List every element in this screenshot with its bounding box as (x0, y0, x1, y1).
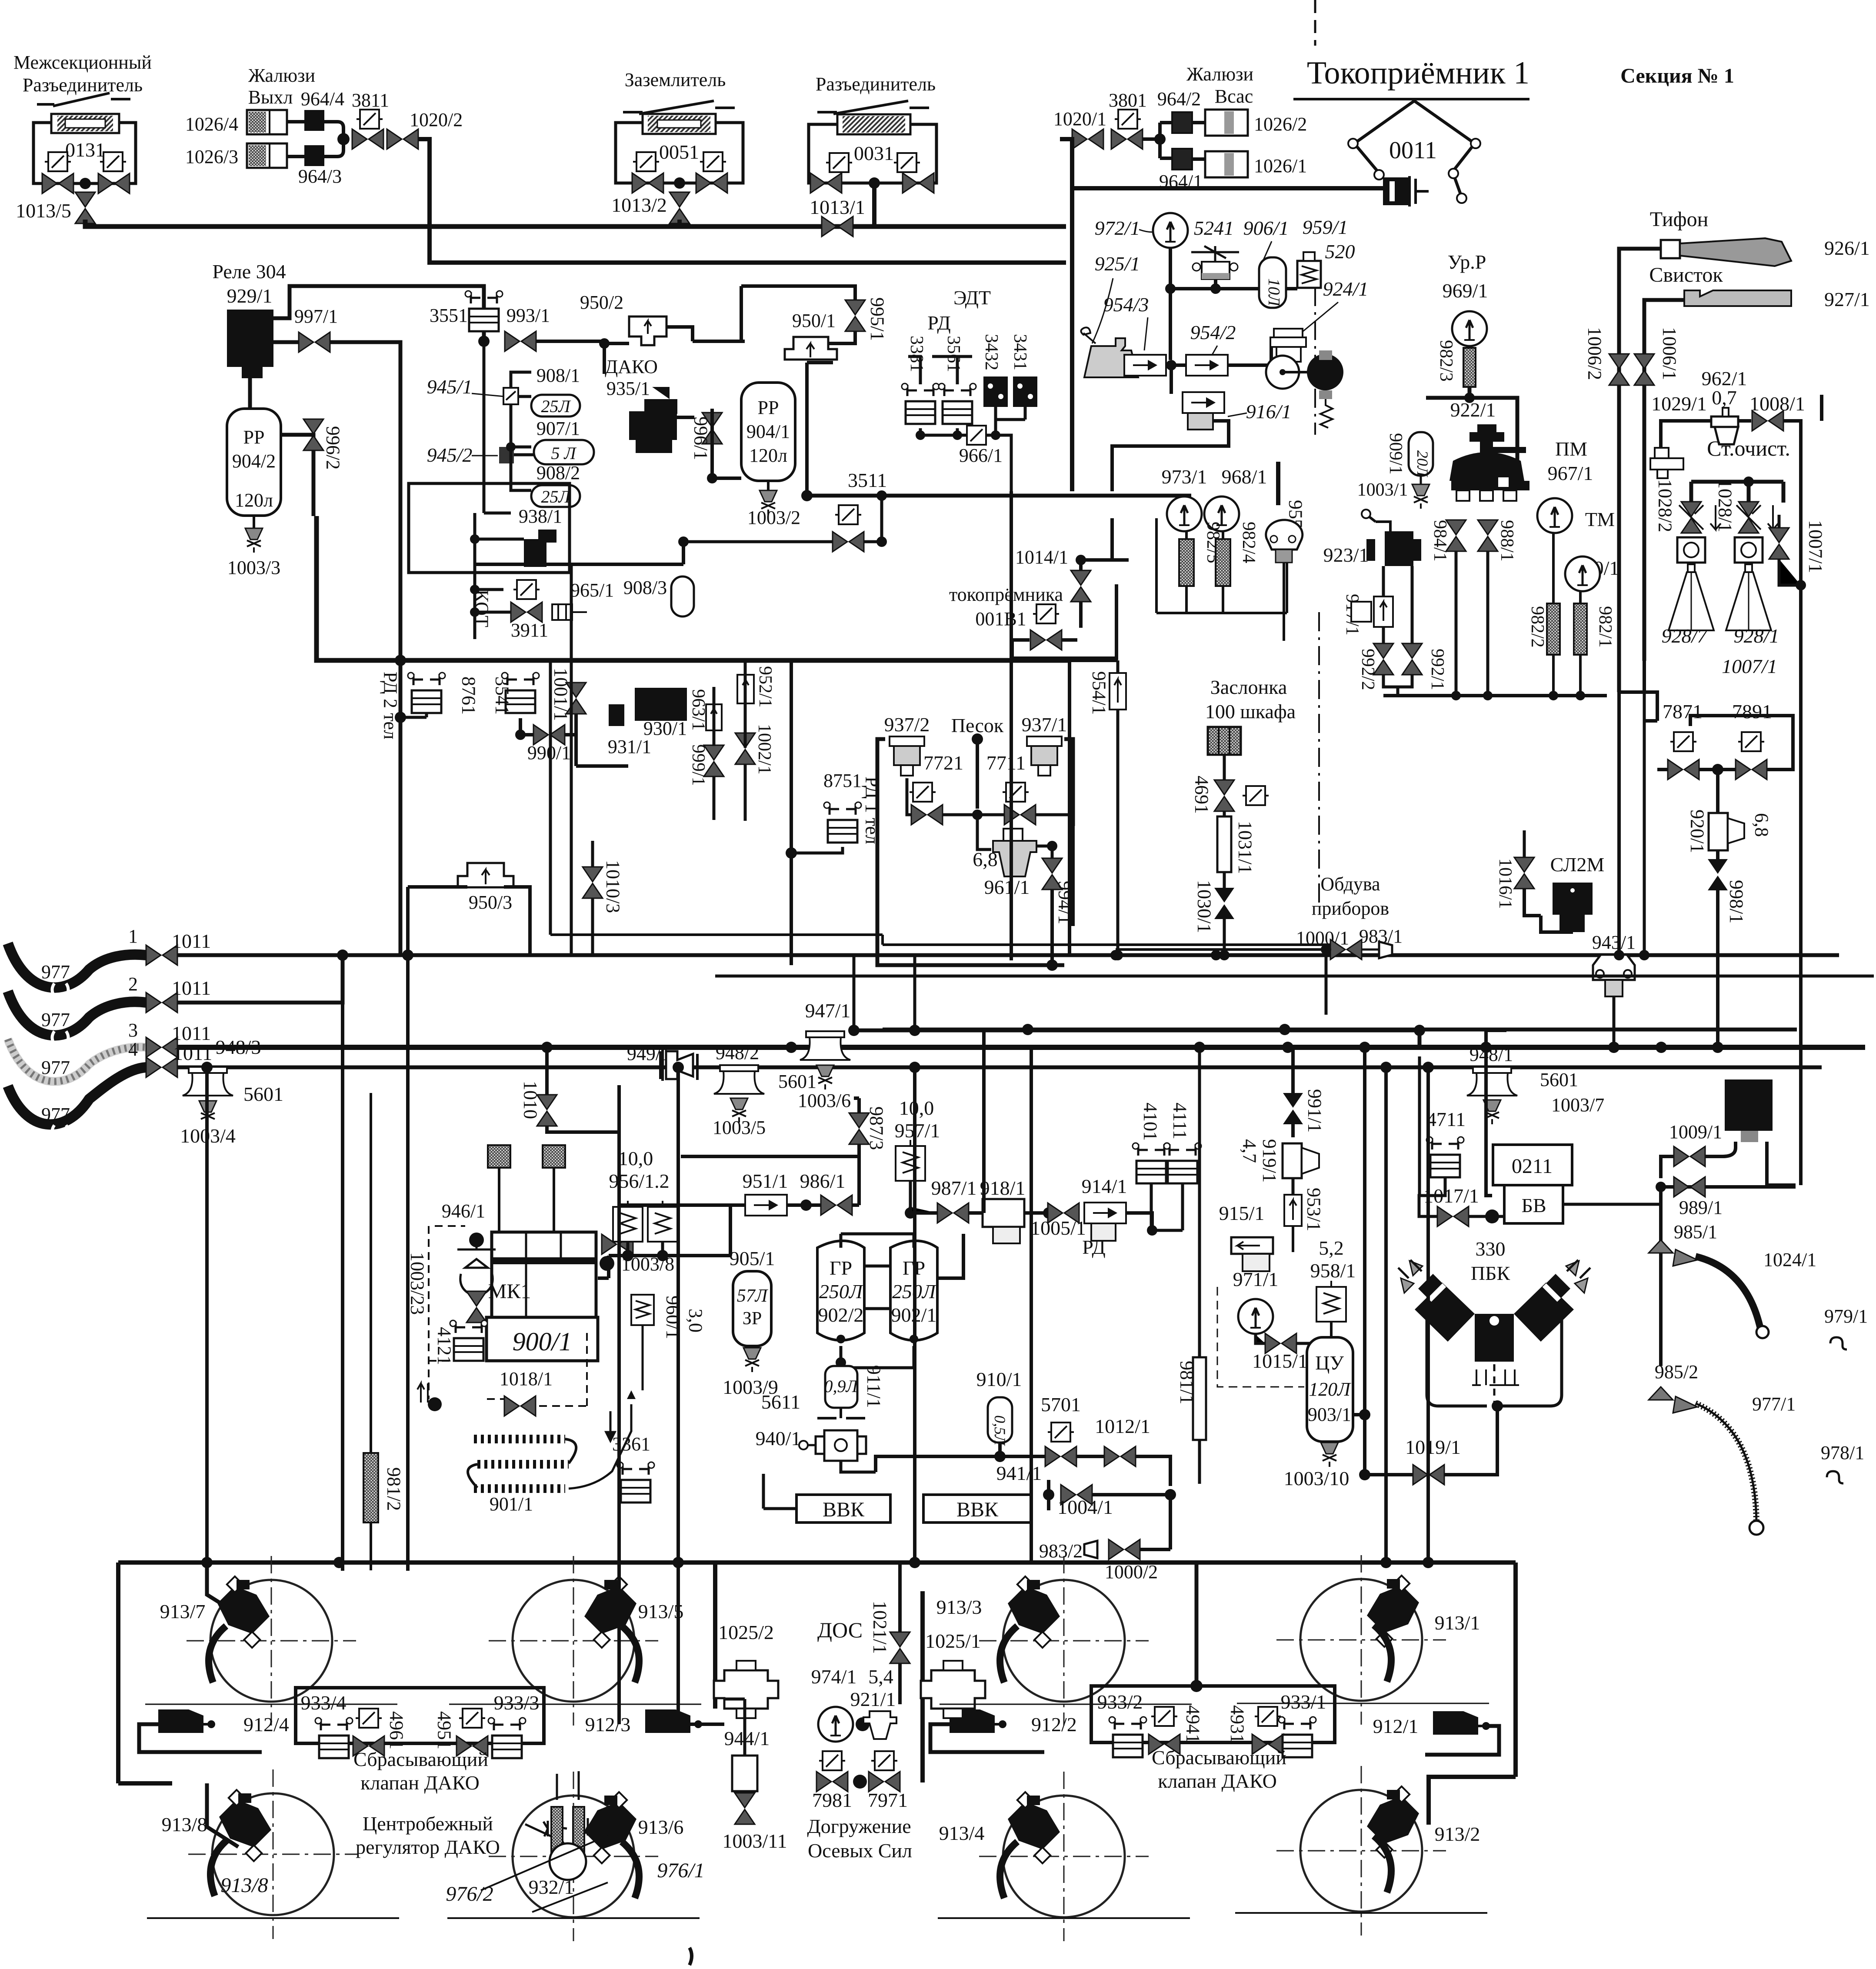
wire V down to H2 and pantograph feed (1060, 139, 1072, 263)
svg-text:7971: 7971 (868, 1789, 908, 1811)
svg-text:1003/11: 1003/11 (722, 1830, 787, 1852)
valve 1009/1 (1674, 1146, 1705, 1166)
svg-text:Сбрасывающий: Сбрасывающий (353, 1748, 488, 1770)
wheel 913/4 (979, 1772, 1149, 1941)
svg-text:1011: 1011 (172, 977, 211, 999)
svg-text:981/1: 981/1 (1176, 1361, 1198, 1404)
nozzle base left (1677, 537, 1705, 563)
wire BV to right main (1563, 1203, 1661, 1206)
svg-text:Секция № 1: Секция № 1 (1620, 64, 1734, 87)
svg-text:923/1: 923/1 (1323, 544, 1369, 566)
valve 964/3 (304, 145, 324, 166)
svg-text:941/1: 941/1 (996, 1462, 1042, 1484)
end valve line4 (146, 1057, 177, 1077)
svg-text:РР: РР (243, 426, 265, 448)
cylinder 1026/3 (247, 143, 287, 168)
bogie 2 frame (118, 1563, 1516, 1825)
wire left risers to bogie2 (207, 1561, 339, 1564)
svg-text:Жалюзи: Жалюзи (248, 65, 315, 86)
svg-text:РД: РД (927, 312, 951, 334)
svg-text:976/2: 976/2 (446, 1882, 493, 1906)
svg-text:998/1: 998/1 (1726, 880, 1747, 923)
box BV (1504, 1185, 1563, 1223)
svg-text:945/1: 945/1 (427, 376, 473, 398)
svg-text:Центробежный: Центробежный (363, 1812, 493, 1835)
svg-text:913/6: 913/6 (638, 1816, 684, 1838)
svg-text:Токоприёмник 1: Токоприёмник 1 (1307, 55, 1529, 91)
svg-text:1020/2: 1020/2 (410, 109, 463, 130)
svg-text:932/1: 932/1 (529, 1876, 574, 1898)
svg-text:1004/1: 1004/1 (1057, 1496, 1113, 1518)
svg-text:924/1: 924/1 (1323, 278, 1369, 300)
svg-text:1009/1: 1009/1 (1669, 1121, 1722, 1143)
hose 977 line2 (8, 991, 146, 1036)
svg-text:989/1: 989/1 (1679, 1197, 1723, 1218)
svg-text:1020/1: 1020/1 (1053, 108, 1106, 130)
PBK center block (1475, 1314, 1514, 1362)
svg-text:Заслонка: Заслонка (1210, 676, 1287, 698)
wires (714, 661, 745, 821)
line 1 (177, 953, 1839, 957)
svg-text:5241: 5241 (1194, 217, 1234, 239)
box loop (877, 739, 1073, 965)
box 0131 (33, 123, 136, 183)
bus feed MR (883, 1028, 1797, 1032)
PBK box outline (1427, 1309, 1562, 1406)
wire 951/1 left to trunk (619, 1132, 681, 1205)
valve 993/1 (505, 331, 536, 351)
gauge 972/1 (1153, 213, 1188, 248)
svg-text:4: 4 (128, 1039, 138, 1060)
wire main H1 (85, 220, 1066, 227)
svg-text:965/1: 965/1 (570, 580, 614, 601)
svg-text:20Л: 20Л (1414, 450, 1431, 478)
throttle beside 3911 (552, 604, 572, 620)
wheel 913/8 (188, 1769, 358, 1939)
svg-text:948/3: 948/3 (216, 1036, 261, 1058)
svg-text:ТМ: ТМ (1585, 508, 1615, 530)
forward sander 961/1 (993, 841, 1036, 876)
svg-text:приборов: приборов (1312, 898, 1389, 919)
svg-text:985/2: 985/2 (1655, 1361, 1698, 1383)
svg-text:940/1: 940/1 (756, 1427, 801, 1449)
svg-text:982/4: 982/4 (1239, 522, 1259, 563)
wheel 913/1 (1276, 1555, 1446, 1725)
relay 950/2 (629, 317, 666, 345)
svg-text:8751: 8751 (823, 770, 862, 791)
rail lines under wheels (147, 1913, 1487, 1918)
valve 1015/1 (1265, 1333, 1296, 1353)
muffler 5601 at line1 (800, 1031, 850, 1060)
sand valve 937/2 (890, 736, 924, 776)
svg-text:987/3: 987/3 (866, 1106, 887, 1150)
svg-text:3381: 3381 (906, 336, 926, 372)
svg-text:982/1: 982/1 (1595, 606, 1615, 648)
valve 996/1 (702, 413, 722, 444)
tank 10Л 906/1 (1259, 257, 1286, 308)
wires around DAKO (536, 327, 745, 374)
end valve line1 (146, 945, 177, 965)
svg-text:908/3: 908/3 (623, 577, 667, 598)
svg-text:4961: 4961 (386, 1711, 407, 1749)
svg-text:928/1: 928/1 (1734, 625, 1779, 647)
svg-text:937/2: 937/2 (884, 713, 930, 736)
svg-text:3811: 3811 (352, 90, 389, 111)
svg-text:1006/1: 1006/1 (1659, 327, 1680, 380)
svg-text:120л: 120л (749, 445, 787, 466)
svg-text:1011: 1011 (173, 1042, 212, 1064)
svg-text:1003/10: 1003/10 (1284, 1467, 1350, 1489)
svg-text:964/3: 964/3 (298, 166, 342, 187)
spring valve 957/1 (896, 1140, 925, 1181)
drain funnel 1003/3 (253, 516, 255, 528)
valve 1000/1 (1330, 940, 1362, 960)
svg-text:25Л: 25Л (541, 487, 571, 506)
svg-text:912/2: 912/2 (1031, 1713, 1077, 1736)
valve 1013/2 (670, 192, 690, 223)
pantograph frame 0011 (1354, 101, 1475, 195)
small tank 0,9л 911/1 (825, 1366, 857, 1408)
svg-text:915/1: 915/1 (1219, 1202, 1265, 1224)
valve 964/4 (304, 110, 324, 131)
svg-text:987/1: 987/1 (931, 1177, 977, 1199)
valve 995/1 (845, 300, 865, 331)
svg-text:1013/1: 1013/1 (810, 196, 865, 218)
svg-text:7891: 7891 (1732, 700, 1772, 723)
cylinder 1026/4 (247, 110, 287, 134)
svg-text:981/2: 981/2 (383, 1467, 405, 1511)
svg-text:922/1: 922/1 (1450, 399, 1496, 421)
wire line4 hub to PBK down (1386, 1067, 1428, 1563)
svg-text:912/4: 912/4 (243, 1713, 289, 1736)
svg-text:988/1: 988/1 (1497, 520, 1517, 562)
wires near 948/1 (854, 1030, 1419, 1047)
valve 1028/1 (1739, 502, 1759, 533)
svg-text:959/1: 959/1 (1303, 216, 1348, 238)
fuse cylinder (643, 114, 716, 134)
svg-text:57Л: 57Л (737, 1286, 769, 1306)
svg-text:1026/1: 1026/1 (1254, 155, 1307, 177)
svg-text:1010/3: 1010/3 (603, 860, 624, 913)
end valve line2 (146, 993, 177, 1013)
svg-text:4,7: 4,7 (1239, 1139, 1260, 1163)
svg-text:МК1: МК1 (488, 1280, 531, 1303)
svg-text:950/1: 950/1 (792, 310, 836, 331)
svg-text:963/1: 963/1 (688, 689, 708, 731)
regulator 916/1 (1183, 392, 1224, 413)
svg-text:913/8: 913/8 (162, 1813, 207, 1836)
svg-text:913/1: 913/1 (1435, 1612, 1480, 1634)
driver brake valve 922/1 (big black) (1477, 424, 1496, 432)
svg-text:0211: 0211 (1512, 1155, 1553, 1178)
svg-text:6,8: 6,8 (973, 848, 998, 870)
cylinder 1026/1 (1205, 151, 1248, 177)
bowtie left (42, 173, 73, 193)
svg-text:ЦУ: ЦУ (1315, 1352, 1344, 1374)
svg-text:977/1: 977/1 (1752, 1393, 1796, 1415)
svg-text:918/1: 918/1 (980, 1177, 1026, 1199)
pipes to horns (1619, 249, 1684, 692)
wire to 3511 (880, 496, 883, 542)
svg-text:25Л: 25Л (541, 396, 571, 416)
wire GR output riser (937, 1029, 984, 1278)
compressor body (492, 1232, 596, 1317)
valve 1007/1 top right (1769, 528, 1789, 559)
main reservoir GR 902/1 (890, 1241, 937, 1340)
svg-text:995/1: 995/1 (867, 297, 888, 341)
wires heater (475, 513, 524, 639)
svg-text:913/3: 913/3 (936, 1596, 982, 1618)
svg-text:952/1: 952/1 (755, 666, 775, 708)
svg-text:Жалюзи: Жалюзи (1186, 63, 1253, 85)
svg-text:СЛ2М: СЛ2М (1550, 853, 1605, 876)
throttle 954/3 (1124, 355, 1166, 376)
final feed lines to bogies (619, 1132, 724, 1724)
svg-text:906/1: 906/1 (1243, 217, 1289, 239)
valve 991/1 (1283, 1093, 1303, 1124)
svg-text:0031: 0031 (854, 142, 894, 164)
svg-text:1003/2: 1003/2 (747, 507, 800, 528)
cooling coil 901/1 (474, 1439, 569, 1489)
svg-text:Осевых Сил: Осевых Сил (808, 1839, 912, 1862)
svg-text:Разъединитель: Разъединитель (816, 73, 936, 95)
svg-text:979/1: 979/1 (1824, 1306, 1868, 1327)
svg-text:ПМ: ПМ (1555, 438, 1587, 460)
arrow down near coil (606, 1411, 615, 1441)
valve for pantograph (1030, 630, 1062, 650)
svg-text:клапан ДАКО: клапан ДАКО (360, 1772, 480, 1794)
svg-text:1025/1: 1025/1 (925, 1630, 981, 1652)
PBK side couplers (1401, 1261, 1423, 1293)
wire trunk from EDT down (1011, 491, 1031, 1563)
svg-text:4111: 4111 (1170, 1103, 1191, 1139)
svg-text:971/1: 971/1 (1233, 1268, 1279, 1290)
coupling 985/1 arrows (1649, 1240, 1697, 1266)
svg-text:1003/23: 1003/23 (407, 1252, 428, 1315)
wire dako-tank (677, 409, 741, 478)
frame around gauges (1156, 518, 1287, 613)
svg-text:954/1: 954/1 (1089, 671, 1110, 715)
svg-text:РД 2 тел: РД 2 тел (380, 672, 401, 740)
svg-text:120л: 120л (235, 490, 273, 511)
svg-text:992/2: 992/2 (1358, 649, 1378, 690)
muffler 948/3 (183, 1067, 233, 1096)
svg-text:931/1: 931/1 (608, 736, 651, 757)
svg-text:954/3: 954/3 (1103, 293, 1149, 316)
column 981/2 (363, 1453, 378, 1523)
svg-text:919/1: 919/1 (1259, 1139, 1280, 1183)
svg-text:0011: 0011 (1389, 137, 1437, 164)
svg-text:ДАКО: ДАКО (605, 356, 658, 377)
svg-text:978/1: 978/1 (1821, 1442, 1864, 1463)
svg-text:914/1: 914/1 (1082, 1175, 1127, 1197)
throttle 945/1 (503, 388, 518, 404)
wire pantograph valve loop (939, 659, 1118, 662)
svg-text:1003/1: 1003/1 (1357, 480, 1408, 500)
main line from tank to right at y1519 (317, 516, 1070, 660)
svg-text:ВВК: ВВК (956, 1498, 999, 1521)
svg-text:3432: 3432 (981, 334, 1001, 370)
svg-text:5 Л: 5 Л (551, 443, 576, 463)
throttle 952/1 (737, 675, 754, 703)
drain 1003/2 (767, 481, 770, 491)
svg-text:901/1: 901/1 (490, 1493, 533, 1515)
svg-text:958/1: 958/1 (1310, 1259, 1356, 1282)
svg-text:8761: 8761 (458, 676, 480, 715)
svg-text:5,2: 5,2 (1319, 1237, 1344, 1259)
valve 1013/1 (822, 217, 853, 237)
svg-text:974/1: 974/1 (811, 1666, 857, 1688)
main reservoir GR 902/2 (817, 1241, 864, 1340)
wire relay to top bus (273, 286, 484, 341)
valve 3641 cluster near RR904/1 (835, 505, 861, 524)
svg-text:950/2: 950/2 (580, 292, 623, 313)
valve 3911 (511, 602, 542, 622)
governor РД 914/1 (1084, 1203, 1126, 1223)
svg-text:регулятор ДАКО: регулятор ДАКО (356, 1836, 500, 1858)
svg-text:1025/2: 1025/2 (718, 1621, 774, 1643)
svg-text:1026/4: 1026/4 (185, 113, 238, 135)
svg-text:943/1: 943/1 (1592, 932, 1636, 953)
svg-text:3911: 3911 (511, 620, 548, 641)
PBK Y black arms (1415, 1283, 1475, 1342)
valve 1030/1 (1214, 888, 1234, 919)
line 3 (177, 1045, 1865, 1050)
svg-text:966/1: 966/1 (959, 445, 1003, 466)
svg-text:Свисток: Свисток (1649, 263, 1723, 287)
svg-text:985/1: 985/1 (1674, 1221, 1717, 1243)
svg-text:РД: РД (1082, 1236, 1106, 1258)
svg-text:976/1: 976/1 (657, 1859, 704, 1882)
valve 924/1 body (1274, 329, 1303, 337)
nozzle base right (1735, 537, 1763, 563)
wires to junction (287, 122, 343, 157)
wire x1964 from line1 down (854, 955, 915, 1030)
valve 1004/1 (1061, 1485, 1092, 1505)
svg-text:933/2: 933/2 (1097, 1691, 1143, 1713)
svg-text:4101: 4101 (1140, 1103, 1161, 1141)
svg-text:ВВК: ВВК (823, 1498, 865, 1521)
washer manifold (1691, 482, 1783, 503)
valve 999/1 (704, 745, 724, 776)
svg-text:992/1: 992/1 (1427, 649, 1447, 690)
valve 1008/1 (1752, 411, 1783, 431)
valve box right (100, 152, 126, 171)
valve 1010/3 (583, 867, 603, 898)
svg-text:920/1: 920/1 (1687, 810, 1708, 853)
valve on drain bus (833, 532, 864, 552)
tank РР 904/2 (227, 409, 281, 516)
motor 912/2 (950, 1709, 1006, 1733)
svg-text:2: 2 (128, 973, 138, 995)
wire washer feed from 920 region down (1619, 661, 1718, 1047)
svg-text:999/1: 999/1 (688, 744, 708, 786)
black vibrator ball (1307, 354, 1343, 390)
svg-text:токопрёмника: токопрёмника (949, 584, 1063, 605)
valve 1014/1 (1071, 570, 1091, 602)
valve 5241 (1191, 246, 1239, 262)
valve 1010 (537, 1095, 557, 1126)
svg-text:Всас: Всас (1215, 86, 1253, 107)
wire y1298 (475, 542, 683, 564)
svg-text:5,4: 5,4 (868, 1666, 893, 1688)
svg-text:7871: 7871 (1663, 700, 1703, 723)
motor 912/4 (158, 1709, 215, 1733)
DAKO box left (296, 1688, 544, 1743)
valve 1006/1 (1634, 354, 1654, 385)
svg-text:4691: 4691 (1191, 776, 1213, 814)
wire down from 0031 (872, 183, 876, 227)
svg-text:927/1: 927/1 (1824, 288, 1870, 310)
svg-text:1003/7: 1003/7 (1551, 1094, 1604, 1116)
svg-text:986/1: 986/1 (800, 1170, 846, 1192)
wire to vsas group (1143, 123, 1172, 158)
svg-text:1014/1: 1014/1 (1015, 546, 1068, 568)
wire at x3418 down from line3 to 1017 node (1486, 1030, 1506, 1196)
valve 964/2 (1172, 112, 1192, 133)
svg-text:Выхл: Выхл (248, 87, 293, 108)
svg-text:938/1: 938/1 (519, 506, 562, 527)
svg-text:4941: 4941 (1183, 1705, 1204, 1743)
valve box left (45, 152, 71, 171)
throttle 954/2 (1186, 355, 1228, 376)
svg-text:1031/1: 1031/1 (1235, 821, 1256, 874)
wheel 932/1 centrifugal regulator (551, 1807, 563, 1852)
switch blade (623, 101, 735, 114)
valve 4691 (1214, 780, 1234, 811)
svg-text:1028/1: 1028/1 (1715, 479, 1736, 532)
cylinder 1026/2 (1205, 110, 1248, 136)
svg-text:330: 330 (1476, 1238, 1506, 1260)
svg-text:908/1: 908/1 (536, 365, 580, 386)
tank 25Л 908/1 (531, 395, 580, 416)
heater box KOT (409, 483, 570, 573)
svg-text:996/1: 996/1 (690, 416, 712, 460)
svg-text:972/1: 972/1 (1095, 217, 1140, 239)
svg-text:1007/1: 1007/1 (1805, 520, 1826, 573)
svg-text:921/1: 921/1 (850, 1688, 896, 1710)
svg-text:933/4: 933/4 (301, 1692, 347, 1714)
svg-text:937/1: 937/1 (1022, 713, 1067, 736)
svg-text:100 шкафа: 100 шкафа (1205, 700, 1296, 723)
filter 982/4 (1216, 539, 1230, 586)
svg-text:953/1: 953/1 (1303, 1188, 1325, 1231)
spray cone right 928/1 (1726, 564, 1771, 630)
valve 989/1 (1674, 1177, 1705, 1197)
svg-text:944/1: 944/1 (724, 1727, 770, 1749)
left bogie riser from line area (205, 1067, 209, 1563)
svg-text:БВ: БВ (1521, 1194, 1546, 1216)
wire relay down to tank (250, 367, 313, 516)
svg-text:0131: 0131 (65, 139, 105, 161)
svg-text:913/8: 913/8 (220, 1874, 268, 1897)
valve 994/1 (1042, 858, 1062, 890)
svg-text:Межсекционный: Межсекционный (13, 52, 152, 73)
vertical feed to right dako (1190, 1680, 1203, 1692)
svg-text:0051: 0051 (659, 141, 699, 163)
end valve line3 (146, 1037, 177, 1057)
svg-text:Сбрасывающий: Сбрасывающий (1152, 1746, 1286, 1769)
svg-text:1003/6: 1003/6 (798, 1090, 851, 1111)
svg-text:0,9Л: 0,9Л (824, 1376, 858, 1396)
valve 1013/5 (75, 192, 95, 223)
svg-text:ЭДТ: ЭДТ (953, 287, 991, 309)
svg-text:10,0: 10,0 (618, 1147, 653, 1169)
horizontal manifold under 922 (1383, 694, 1607, 697)
svg-text:945/2: 945/2 (427, 444, 473, 466)
svg-text:520: 520 (1325, 240, 1355, 263)
svg-text:7981: 7981 (812, 1789, 852, 1811)
